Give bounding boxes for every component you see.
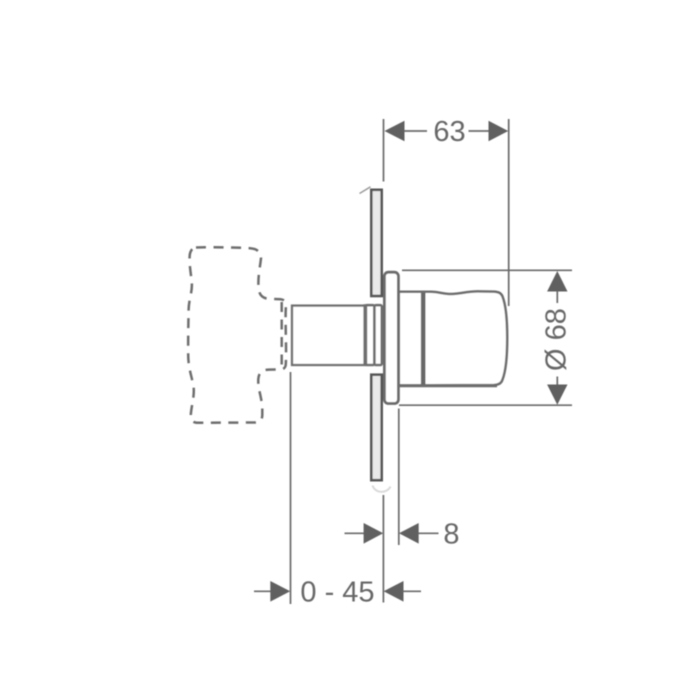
svg-text:63: 63 xyxy=(433,116,465,148)
svg-text:8: 8 xyxy=(443,519,459,551)
faint arc artifact below plate xyxy=(373,486,391,492)
dim 63: left stem xyxy=(404,130,427,132)
dim 8: right arrow xyxy=(399,523,419,544)
dim 68: bottom extension line xyxy=(399,404,572,406)
dim 0-45: left arrow xyxy=(270,581,290,602)
dim 63: left arrow xyxy=(385,121,405,142)
dim 68: bottom arrow xyxy=(547,385,567,405)
handle hub inner dashed line xyxy=(280,302,283,368)
dim 8: right stem xyxy=(419,532,439,534)
dim 0-45: left stem xyxy=(254,590,272,592)
stem collar ring 2 xyxy=(374,305,381,365)
wall plate upper segment xyxy=(371,190,381,296)
handle (dashed outline) xyxy=(188,247,286,423)
stem end thick edge xyxy=(363,304,367,366)
dim 8: right extension line xyxy=(398,409,400,546)
cap back divider xyxy=(421,293,426,385)
flange xyxy=(384,272,398,403)
dim 8: left stem xyxy=(345,532,365,534)
svg-text:Ø 68: Ø 68 xyxy=(541,308,573,371)
dim 68: top extension line xyxy=(402,269,572,271)
dim 0-45: left extension line xyxy=(290,372,292,604)
dim 68: top arrow xyxy=(547,271,567,292)
handle cap body xyxy=(399,291,507,385)
wall plate lower segment xyxy=(371,375,381,481)
dim 0-45: right stem xyxy=(403,590,421,592)
valve stem xyxy=(292,306,365,365)
dim 63: right extension line xyxy=(508,119,510,306)
dim 8: left arrow xyxy=(364,523,384,544)
dim 68: top stem xyxy=(556,291,558,303)
dim 63: left extension line xyxy=(383,119,385,182)
stem collar ring 1 xyxy=(365,305,374,365)
dim 8: left extension line xyxy=(382,495,384,603)
dim 68: bottom stem xyxy=(556,377,558,386)
svg-text:0 - 45: 0 - 45 xyxy=(300,577,374,609)
dim 0-45: right arrow xyxy=(384,581,404,602)
cap bottom edge (thicker) xyxy=(399,384,497,387)
dim 63: right arrow xyxy=(489,121,509,142)
dim 63: right stem xyxy=(469,130,490,132)
wall plate top overshoot tick xyxy=(360,187,371,194)
